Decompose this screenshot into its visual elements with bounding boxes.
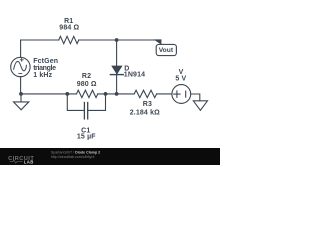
- svg-text:LAB: LAB: [24, 159, 34, 164]
- svg-text:980 Ω: 980 Ω: [77, 81, 97, 88]
- svg-text:1N914: 1N914: [124, 72, 145, 79]
- svg-text:2.184 kΩ: 2.184 kΩ: [130, 110, 160, 117]
- svg-text:http://circuitlab.com/c4t5yr4: http://circuitlab.com/c4t5yr4: [51, 155, 95, 159]
- svg-text:R3: R3: [143, 101, 152, 108]
- svg-text:984 Ω: 984 Ω: [59, 24, 79, 31]
- svg-text:Vout: Vout: [159, 47, 174, 54]
- svg-text:R2: R2: [82, 73, 91, 80]
- svg-text:5 V: 5 V: [175, 76, 186, 83]
- svg-text:FctGen: FctGen: [33, 58, 58, 65]
- svg-text:1 kHz: 1 kHz: [33, 72, 52, 79]
- svg-text:15 µF: 15 µF: [77, 134, 96, 141]
- svg-text:triangle: triangle: [33, 65, 56, 72]
